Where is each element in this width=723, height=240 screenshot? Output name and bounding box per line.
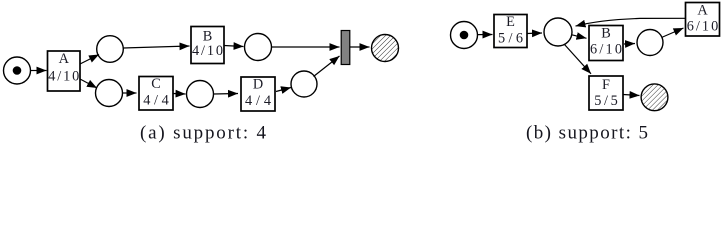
- svg-text:(a) support: 4: (a) support: 4: [140, 123, 267, 144]
- svg-text:4/4: 4/4: [245, 93, 271, 109]
- svg-text:A: A: [697, 3, 708, 19]
- svg-text:5/6: 5/6: [498, 30, 523, 46]
- svg-text:6/10: 6/10: [687, 19, 719, 35]
- svg-text:5/5: 5/5: [594, 93, 618, 109]
- svg-text:4/4: 4/4: [143, 93, 169, 109]
- svg-text:A: A: [59, 51, 70, 67]
- svg-text:F: F: [602, 77, 610, 93]
- svg-text:B: B: [601, 25, 611, 41]
- svg-text:C: C: [151, 76, 161, 92]
- svg-text:4/10: 4/10: [192, 43, 223, 59]
- svg-text:E: E: [506, 14, 515, 30]
- svg-text:(b) support: 5: (b) support: 5: [526, 123, 648, 144]
- svg-text:6/10: 6/10: [590, 42, 622, 58]
- svg-text:4/10: 4/10: [48, 69, 79, 85]
- svg-text:D: D: [253, 77, 263, 93]
